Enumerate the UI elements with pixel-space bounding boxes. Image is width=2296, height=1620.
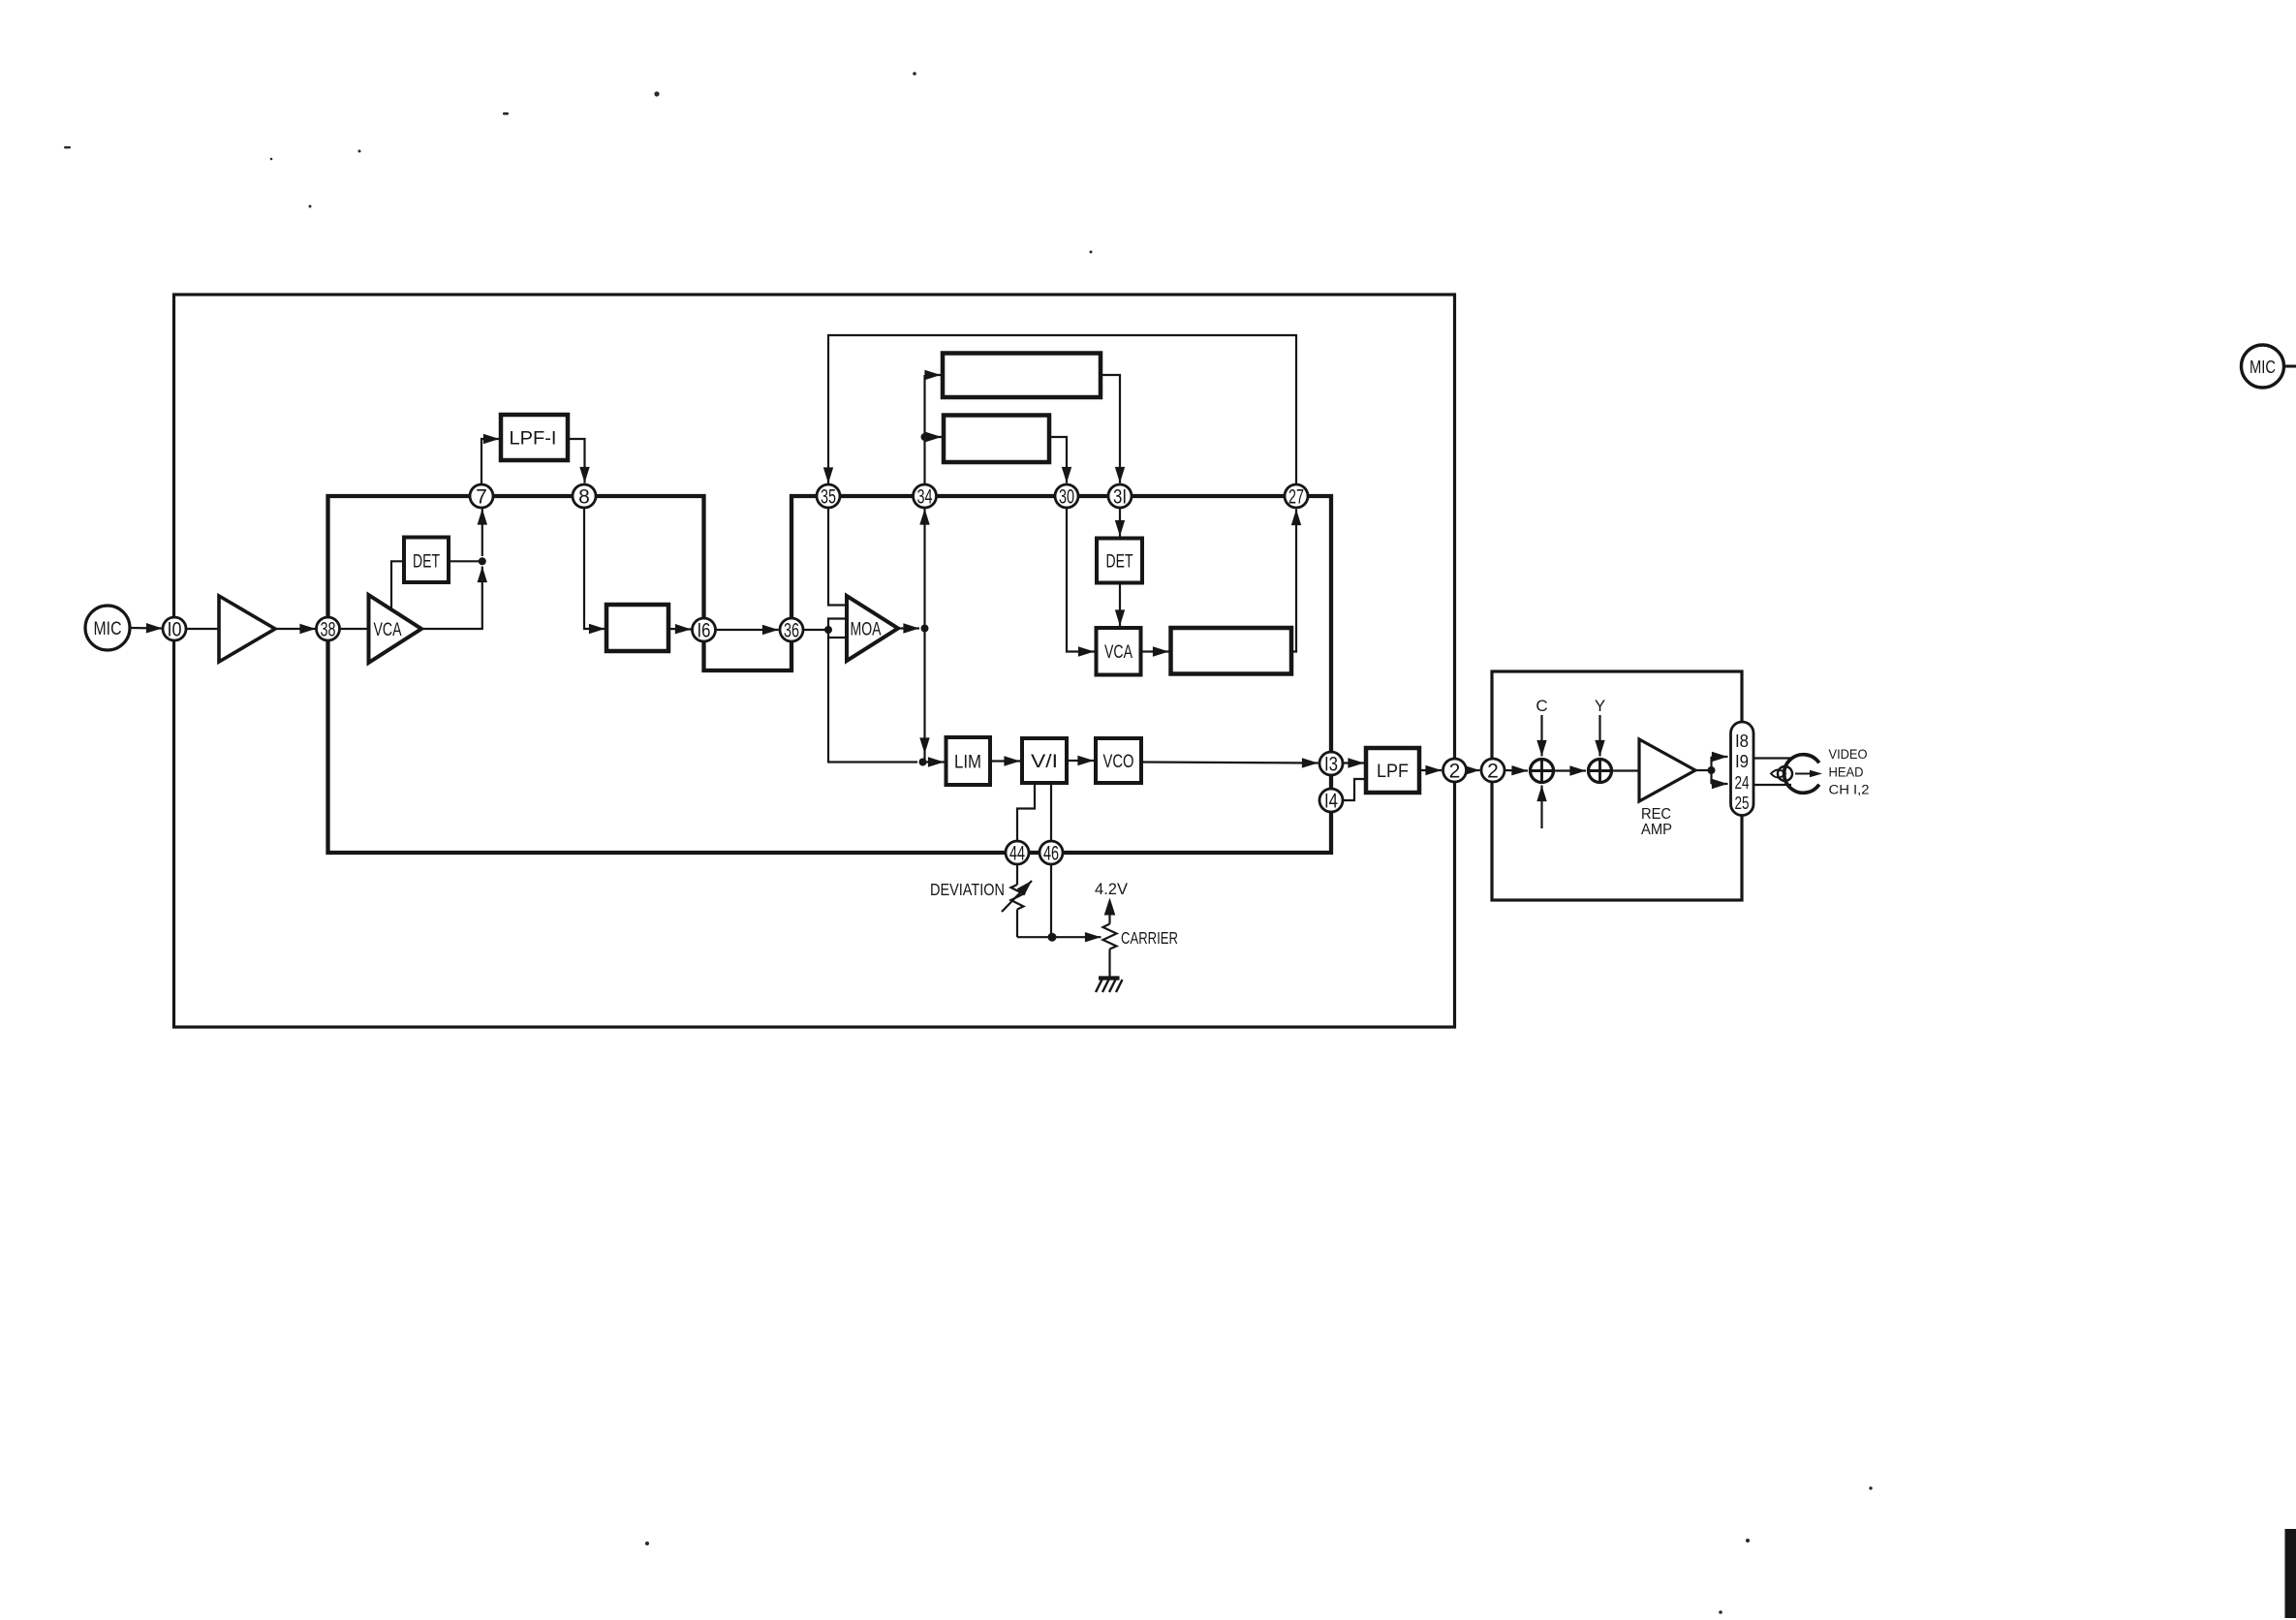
wire REC AMP output to node <box>1695 769 1712 771</box>
wire pin 30 down to VCA left input <box>1067 508 1095 652</box>
wire pin 36 to MOA input node <box>803 629 828 631</box>
wire filter box up to pin 27 <box>1291 510 1296 652</box>
terminal MIC circle (right edge) <box>2242 345 2284 388</box>
summing node C (circle with plus) <box>1531 760 1554 783</box>
scan specks <box>64 72 1873 1614</box>
wire VCA top edge to DET <box>391 561 404 609</box>
wire pin 46 down to junction <box>1050 864 1052 938</box>
pin 38 circle <box>317 617 340 640</box>
svg-text:REC: REC <box>1641 806 1671 823</box>
svg-text:Y: Y <box>1595 697 1605 715</box>
svg-text:4.2V: 4.2V <box>1095 880 1129 898</box>
svg-text:2: 2 <box>1449 761 1461 783</box>
wire carrier pot to ground <box>1108 950 1110 978</box>
wire node up to pin 7 <box>481 509 483 556</box>
limiter LIM box <box>946 737 991 785</box>
wire MOA output up to pin 34 <box>923 509 925 629</box>
svg-text:25: 25 <box>1735 794 1750 813</box>
wire pin 34 up to filter boxes <box>923 375 925 485</box>
wire VCA output up to node <box>421 567 482 630</box>
amplifier REC AMP triangle <box>1639 739 1695 801</box>
svg-text:VIDEO: VIDEO <box>1829 747 1868 762</box>
video head chip circle <box>1778 766 1792 781</box>
wire pin 13 into LPF <box>1343 762 1365 763</box>
svg-text:8: 8 <box>578 486 590 509</box>
node LIM input junction <box>919 759 927 766</box>
pin 2 circle <box>1443 759 1467 782</box>
wire LIM to V/I <box>990 760 1020 762</box>
pin 7 circle <box>470 484 493 508</box>
wire pin 7 up to LPF-1 <box>481 439 500 485</box>
svg-text:DEVIATION: DEVIATION <box>930 880 1005 899</box>
svg-text:38: 38 <box>321 619 336 641</box>
pin 14 circle <box>1319 789 1343 812</box>
wire deviation arrow <box>1002 881 1032 912</box>
wire MOA input bracket <box>828 619 847 639</box>
svg-text:CARRIER: CARRIER <box>1121 928 1178 948</box>
wire deviation to junction <box>1017 936 1052 938</box>
wire DET down to VCA <box>1119 583 1121 627</box>
detector DET box (right) <box>1097 539 1142 583</box>
svg-text:LPF: LPF <box>1377 762 1409 782</box>
IC block outer boundary rectangle <box>174 295 1455 1027</box>
svg-text:3I: 3I <box>1113 486 1127 509</box>
node REC AMP output junction <box>1708 766 1716 774</box>
pin 44 circle <box>1006 841 1029 864</box>
wire summing node to summing node Y <box>1554 769 1587 771</box>
wire MIC stub <box>2284 365 2296 368</box>
svg-text:I6: I6 <box>698 620 711 642</box>
power 4.2V supply arrow <box>1108 915 1110 924</box>
node branch junction to lower filter box <box>921 433 929 441</box>
svg-text:24: 24 <box>1735 773 1750 793</box>
wire into pin 19 <box>1712 756 1728 758</box>
filter box (unlabeled, lower) <box>944 416 1049 463</box>
wire pin 2 to pin 2 <box>1466 769 1480 771</box>
wire Y into summing node <box>1598 715 1600 757</box>
pin 30 circle <box>1055 484 1078 508</box>
svg-text:35: 35 <box>821 486 836 509</box>
pin 46 circle <box>1039 841 1063 864</box>
svg-text:VCA: VCA <box>374 620 402 640</box>
svg-text:DET: DET <box>1106 552 1133 573</box>
pin 31 circle <box>1108 484 1132 508</box>
wire rotation arrow in video head <box>1795 773 1813 775</box>
pin 36 circle <box>780 618 803 641</box>
wire pin 14 into LPF lower input <box>1343 779 1367 800</box>
svg-text:MIC: MIC <box>94 619 122 639</box>
VCA box (right) <box>1097 628 1141 675</box>
pin 10 circle <box>163 617 186 640</box>
svg-text:2: 2 <box>1487 761 1499 783</box>
wire pin 44 down to deviation resistor <box>1016 864 1018 886</box>
wire VCA to filter box <box>1141 650 1169 652</box>
svg-text:HEAD: HEAD <box>1829 765 1864 780</box>
pin 8 circle <box>573 484 596 508</box>
wire DET output to node <box>449 560 482 562</box>
wire pin 8 down to filter box <box>584 508 605 630</box>
pin 35 circle <box>817 484 840 508</box>
svg-text:7: 7 <box>476 486 487 509</box>
wire lower input into summing node <box>1540 786 1542 829</box>
wire V/I to VCO <box>1067 760 1094 762</box>
registration black bar bottom-right <box>2285 1529 2296 1618</box>
wire pin strip to video head lower <box>1753 784 1791 786</box>
svg-text:36: 36 <box>784 620 799 642</box>
svg-text:I8: I8 <box>1735 732 1749 751</box>
node MOA input junction <box>824 626 832 634</box>
wire output bracket <box>1710 757 1712 784</box>
svg-text:34: 34 <box>917 486 933 509</box>
wire filter box to pin 16 <box>668 628 692 631</box>
wire LPF output to pin 2 <box>1419 769 1442 771</box>
wire junction into LIM <box>923 761 945 763</box>
video head winding lens <box>1771 770 1785 778</box>
wire pin 10 to amplifier <box>186 628 220 630</box>
svg-text:44: 44 <box>1009 843 1025 865</box>
wire pin 31 down to DET <box>1119 508 1121 537</box>
VCA amplifier triangle <box>369 595 422 663</box>
wire summing node to REC AMP <box>1612 769 1640 771</box>
svg-text:C: C <box>1536 697 1547 715</box>
svg-text:MIC: MIC <box>2249 358 2276 377</box>
wire MIC to pin 10 <box>130 627 163 630</box>
svg-text:27: 27 <box>1288 486 1304 509</box>
node AGC junction <box>479 557 486 565</box>
wire pin 35 down to MOA upper input <box>828 508 847 606</box>
wire MOA input node down to LIM junction <box>828 638 917 763</box>
wire V/I lower-left terminal to pin 44 <box>1017 783 1035 841</box>
filter box (unlabeled) after pin 8 <box>606 605 668 651</box>
svg-text:MOA: MOA <box>851 620 882 640</box>
ground <box>1099 976 1120 980</box>
pin 2 circle <box>1481 759 1505 782</box>
svg-text:VCA: VCA <box>1104 642 1132 663</box>
wire VCO to pin 13 <box>1141 763 1319 763</box>
wire top branch into upper filter box <box>925 374 942 376</box>
wire into pin 24 <box>1712 783 1728 785</box>
wire C into summing node <box>1540 715 1542 757</box>
wire upper filter box to pin 31 <box>1101 375 1120 483</box>
wire inner bus loop (pins 7-8-16-36-35-34-30-31-27-13-14-46-44-38) <box>328 496 1332 853</box>
svg-text:LPF-I: LPF-I <box>510 429 557 450</box>
REC AMP block boundary rectangle <box>1492 671 1742 900</box>
wire junction wiper arrow into CARRIER pot <box>1052 936 1101 938</box>
wire V/I lower-right terminal to pin 46 <box>1050 783 1052 841</box>
resistor CARRIER (pot) <box>1103 924 1117 950</box>
wire pin 38 to VCA <box>339 628 369 630</box>
node carrier junction <box>1048 933 1057 942</box>
converter V/I box <box>1022 738 1067 783</box>
node MOA output junction <box>921 625 929 633</box>
svg-text:VCO: VCO <box>1103 752 1134 772</box>
wire LPF-1 output down to pin 8 <box>568 439 585 483</box>
wire pin 16 to pin 36 <box>716 629 779 631</box>
wire pin 2 to summing node <box>1505 769 1529 772</box>
resistor DEVIATION (variable) <box>1011 885 1024 910</box>
filter LPF-1 box <box>501 415 568 460</box>
video head drum circle <box>1784 755 1819 794</box>
svg-text:AMP: AMP <box>1641 822 1672 838</box>
oscillator VCO box <box>1096 738 1141 783</box>
filter box (unlabeled, upper long) <box>943 354 1101 398</box>
svg-text:I0: I0 <box>168 619 182 641</box>
svg-text:V/I: V/I <box>1031 752 1058 772</box>
amplifier A1 triangle <box>219 596 275 662</box>
wire node down toward LIM junction <box>923 629 925 755</box>
terminal MIC input circle <box>85 606 130 650</box>
svg-text:CH I,2: CH I,2 <box>1829 783 1870 797</box>
svg-text:I3: I3 <box>1324 754 1338 776</box>
svg-text:I4: I4 <box>1324 791 1338 813</box>
op-amp MOA triangle <box>847 596 898 661</box>
wire MOA output to node <box>898 627 919 629</box>
wire amplifier to pin 38 <box>275 628 316 630</box>
filter box (unlabeled) after VCA <box>1171 628 1292 674</box>
pin 34 circle <box>914 484 937 508</box>
wire feedback pin 27 to pin 35 <box>828 335 1296 485</box>
wire lower filter box to pin 30 <box>1049 437 1067 483</box>
pin 16 circle <box>693 618 716 641</box>
svg-text:LIM: LIM <box>954 753 981 773</box>
svg-text:46: 46 <box>1043 843 1059 865</box>
detector DET box (AGC) <box>404 538 449 583</box>
svg-text:30: 30 <box>1059 486 1074 509</box>
svg-text:I9: I9 <box>1735 752 1749 771</box>
wire branch into lower filter box <box>925 436 943 438</box>
filter LPF box <box>1366 748 1419 793</box>
pin strip 18 19 24 25 (pill) <box>1731 722 1754 816</box>
wire pin strip to video head upper <box>1753 757 1791 759</box>
pin 27 circle <box>1285 484 1308 508</box>
pin 13 circle <box>1319 752 1343 775</box>
summing node Y (circle with plus) <box>1589 760 1612 783</box>
svg-text:DET: DET <box>413 552 440 573</box>
